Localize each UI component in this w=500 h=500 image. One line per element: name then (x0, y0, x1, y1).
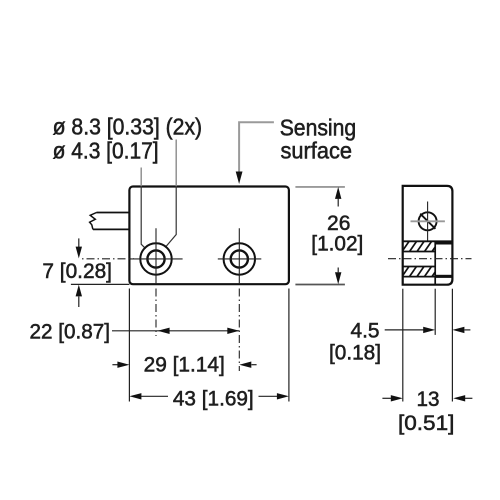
section cut top line (403, 240, 453, 242)
cable stub with break symbol (90, 213, 130, 230)
svg-text:29 [1.14]: 29 [1.14] (144, 353, 225, 376)
dimension 43 [1.69] (129, 388, 289, 411)
svg-text:ø 4.3 [0.17]: ø 4.3 [0.17] (53, 138, 159, 164)
leader dia 8.3 (166, 140, 176, 247)
extension lines below side view (402, 289, 404, 402)
counterbore wall strip top (435, 241, 452, 244)
svg-text:13: 13 (417, 388, 440, 411)
counterbore wall strip bottom (435, 275, 452, 278)
svg-text:43 [1.69]: 43 [1.69] (173, 388, 254, 411)
dimension 4.5 [0.18] (329, 320, 470, 365)
centerline left hole below body (dash-dot) (155, 289, 157, 337)
dimension 7 [0.28] (42, 238, 129, 307)
extension line body right below (288, 289, 290, 402)
front view body (129, 187, 289, 285)
label Sensing surface (280, 115, 357, 164)
svg-text:[0.51]: [0.51] (398, 412, 454, 435)
centerline right hole below body (dash-dot) (238, 289, 240, 372)
leader sensing surface (236, 122, 274, 184)
dimension 13 [0.51] (382, 388, 472, 435)
counterbore inner edge vertical (434, 241, 436, 284)
svg-text:[0.18]: [0.18] (329, 342, 381, 365)
side view body (403, 186, 453, 285)
hatched band lower (401, 265, 440, 278)
hatched band upper (401, 240, 440, 253)
svg-text:22 [0.87]: 22 [0.87] (30, 320, 111, 343)
dimension 22 [0.87] (30, 320, 240, 343)
dimension 29 [1.14] (112, 353, 256, 376)
extension line body left below (128, 289, 130, 402)
svg-text:7 [0.28]: 7 [0.28] (42, 260, 112, 283)
svg-text:ø 8.3 [0.33] (2x): ø 8.3 [0.33] (2x) (53, 114, 203, 140)
svg-text:[1.02]: [1.02] (311, 232, 363, 255)
mounting hole right (counterbore) (218, 228, 261, 284)
leader dia 4.3 (gray above body, dark inside) (141, 168, 146, 249)
screw head (circle with slash) (411, 202, 445, 242)
svg-text:surface: surface (281, 137, 353, 163)
mounting hole left (counterbore) (131, 228, 183, 284)
dimension 26 [1.02] (295, 187, 363, 285)
bore centerline (dash-dot) side view (388, 258, 472, 260)
centerline of hole extended left of body (dash-dot) (82, 258, 134, 260)
svg-text:4.5: 4.5 (351, 320, 380, 343)
